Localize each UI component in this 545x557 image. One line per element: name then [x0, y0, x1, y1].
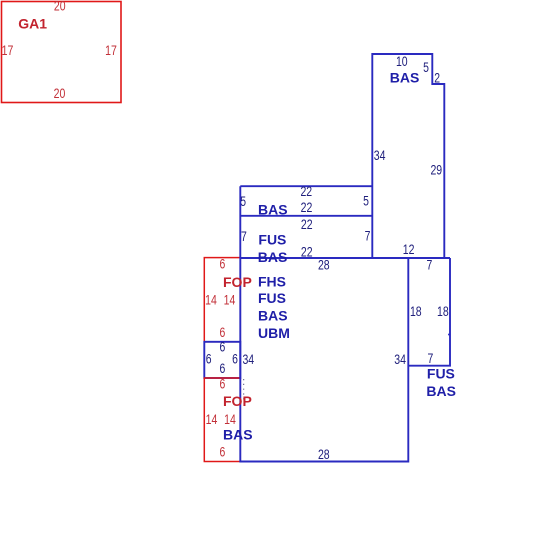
svg-text:10: 10: [396, 53, 408, 69]
main horizontal wall: [240, 257, 450, 259]
upper BAS tower outline: [372, 54, 444, 258]
svg-text:BAS: BAS: [426, 383, 456, 399]
svg-text:FOP: FOP: [223, 393, 252, 409]
svg-text:14: 14: [206, 411, 218, 427]
svg-text:14: 14: [224, 411, 236, 427]
svg-text:20: 20: [54, 0, 66, 14]
BAS strip row divider lines: [240, 186, 372, 216]
svg-text:FUS: FUS: [427, 365, 455, 381]
svg-text:BAS: BAS: [258, 249, 288, 265]
svg-text:2: 2: [434, 70, 440, 86]
svg-text:34: 34: [394, 351, 406, 367]
svg-text:5: 5: [363, 193, 369, 209]
svg-text:7: 7: [241, 228, 247, 244]
svg-text:22: 22: [301, 243, 313, 259]
svg-text:5: 5: [240, 193, 246, 209]
svg-text:20: 20: [54, 85, 66, 101]
svg-text:14: 14: [205, 292, 217, 308]
svg-text:FUS: FUS: [258, 232, 286, 248]
svg-text:28: 28: [318, 446, 330, 462]
svg-text:BAS: BAS: [390, 69, 420, 85]
porch FOP lower outline: [204, 378, 240, 462]
svg-text:6: 6: [206, 350, 212, 366]
svg-text:34: 34: [242, 351, 254, 367]
svg-text:7: 7: [428, 350, 434, 366]
svg-text:14: 14: [224, 292, 236, 308]
svg-text:FUS: FUS: [258, 290, 286, 306]
svg-text:UBM: UBM: [258, 325, 290, 341]
svg-text:22: 22: [301, 199, 313, 215]
svg-text:FHS: FHS: [258, 274, 286, 290]
svg-text:18: 18: [437, 303, 449, 319]
svg-text:28: 28: [318, 257, 330, 273]
svg-text:7: 7: [427, 256, 433, 272]
stray tick on wing wall: [448, 334, 450, 336]
svg-text:17: 17: [105, 42, 117, 58]
svg-text:FOP: FOP: [223, 274, 252, 290]
svg-text:BAS: BAS: [258, 308, 288, 324]
svg-text:29: 29: [430, 162, 442, 178]
svg-text:18: 18: [410, 303, 422, 319]
svg-text:BAS: BAS: [223, 427, 253, 443]
main body outline: [240, 186, 408, 461]
svg-text:6: 6: [220, 256, 226, 272]
svg-text:GA1: GA1: [18, 16, 47, 32]
patio 6x6 blue box outline: [204, 342, 240, 378]
svg-text:7: 7: [365, 228, 371, 244]
svg-text:6: 6: [220, 444, 226, 460]
svg-text:12: 12: [403, 241, 415, 257]
svg-text:BAS: BAS: [258, 201, 288, 217]
svg-text:6: 6: [220, 376, 226, 392]
svg-text:34: 34: [374, 147, 386, 163]
svg-text:5: 5: [423, 59, 429, 75]
svg-text:22: 22: [301, 216, 313, 232]
svg-text:17: 17: [2, 42, 14, 58]
svg-text:22: 22: [300, 183, 312, 199]
svg-text:6: 6: [232, 350, 238, 366]
right FUS/BAS wing outline: [408, 258, 450, 366]
svg-text:6: 6: [220, 339, 226, 355]
porch FOP upper outline: [204, 258, 240, 342]
dotted interior marker line: [243, 379, 245, 401]
garage GA1 outline: [2, 2, 122, 103]
svg-text:6: 6: [220, 360, 226, 376]
